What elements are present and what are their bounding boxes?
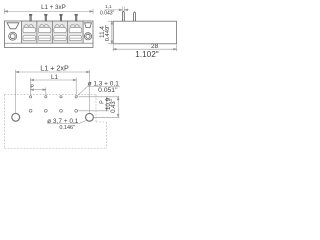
svg-text:P: P [30, 85, 34, 91]
svg-text:L1 + 2xP: L1 + 2xP [40, 64, 69, 73]
svg-text:L1: L1 [51, 74, 58, 81]
svg-text:1,1: 1,1 [105, 4, 112, 9]
svg-text:0.449": 0.449" [105, 25, 111, 42]
svg-text:L1 + 3xP: L1 + 3xP [41, 4, 66, 11]
svg-text:1.102": 1.102" [135, 50, 158, 59]
svg-text:0.146": 0.146" [59, 125, 75, 131]
svg-text:0.043": 0.043" [100, 10, 115, 16]
svg-text:0.051": 0.051" [98, 87, 118, 94]
svg-text:0.43": 0.43" [111, 99, 117, 113]
svg-text:28: 28 [151, 43, 159, 50]
svg-text:ø 3,7 + 0,1: ø 3,7 + 0,1 [47, 118, 79, 125]
